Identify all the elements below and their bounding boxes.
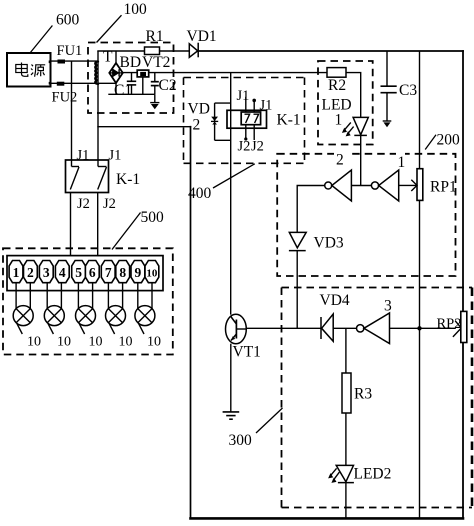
svg-text:2: 2 <box>27 265 34 280</box>
wire: R3 to LED2 <box>345 413 347 465</box>
resistor R3 <box>342 373 351 413</box>
LED LED2 <box>336 465 354 482</box>
label 400 leader line <box>213 164 255 188</box>
wire: right edge of main loop <box>462 51 464 518</box>
capacitor C3 <box>381 51 397 121</box>
wire: VT1 emitter down <box>230 344 232 412</box>
svg-text:10: 10 <box>57 335 71 350</box>
svg-text:500: 500 <box>141 209 165 226</box>
svg-text:200: 200 <box>437 132 461 149</box>
svg-text:10: 10 <box>27 335 41 350</box>
label 600 leader line <box>30 26 52 53</box>
regulator VT2 <box>137 70 149 94</box>
potentiometer RP2 <box>461 311 467 342</box>
wire: R3 branch down <box>345 328 347 373</box>
terminal 5 <box>72 261 86 283</box>
resistor R1 <box>145 47 160 55</box>
svg-text:FU2: FU2 <box>52 90 78 106</box>
wire: RP1 feed from top rail <box>419 51 421 169</box>
terminal 3 <box>39 261 53 283</box>
svg-text:K-1: K-1 <box>116 171 140 188</box>
svg-text:5: 5 <box>75 265 82 280</box>
svg-text:T: T <box>103 49 113 66</box>
bridge rectifier BD <box>109 63 123 83</box>
svg-text:VT2: VT2 <box>142 54 170 71</box>
relay coil K-1 <box>227 110 267 128</box>
svg-text:J1: J1 <box>77 148 90 164</box>
svg-text:J2: J2 <box>103 196 116 212</box>
svg-text:7: 7 <box>105 265 112 280</box>
terminal 4 <box>55 261 69 283</box>
svg-text:1: 1 <box>398 154 406 171</box>
label 电源 (drawn glyphs) <box>16 63 45 77</box>
svg-text:RP1: RP1 <box>430 179 457 196</box>
svg-text:VD: VD <box>188 101 210 118</box>
svg-text:R1: R1 <box>146 28 164 45</box>
diode VD3 <box>289 232 306 250</box>
svg-text:3: 3 <box>43 265 50 280</box>
svg-text:9: 9 <box>135 265 142 280</box>
diode VD1 <box>189 43 198 58</box>
lamp 3 with leads <box>76 283 96 335</box>
capacitor C2 <box>151 73 159 95</box>
wire: FU1 line <box>51 60 99 62</box>
svg-text:R2: R2 <box>328 77 346 94</box>
wire: LED2 to bottom rail <box>345 483 347 519</box>
transistor VT1 <box>226 314 247 344</box>
wire: bridge - output down to negative rail <box>115 83 117 94</box>
wire: left edge of main loop <box>190 127 192 519</box>
svg-text:6: 6 <box>89 265 96 280</box>
svg-text:J1: J1 <box>260 98 273 114</box>
wire: contact left output to terminal strip <box>70 193 72 256</box>
contact block K-1 <box>66 160 109 193</box>
svg-text:10: 10 <box>89 335 103 350</box>
wire: FU2 line to bridge <box>51 82 117 84</box>
svg-text:J1: J1 <box>237 88 250 104</box>
svg-text:K-1: K-1 <box>277 112 301 129</box>
svg-text:VT1: VT1 <box>233 344 261 361</box>
lamp 4 with leads <box>106 283 126 335</box>
LED2 emission arrows <box>328 468 339 483</box>
pin J1 left of relay <box>245 97 247 112</box>
terminal 2 <box>24 261 38 283</box>
RP1 wiper arrow <box>399 180 417 191</box>
label 2 (inverter) <box>334 152 348 169</box>
lamp 2 with leads <box>44 283 64 335</box>
svg-text:RP2: RP2 <box>437 316 462 332</box>
dashed box 400 <box>184 78 305 164</box>
LED LED1 <box>353 117 368 186</box>
wire: bridge + output up to top rail <box>115 51 117 63</box>
svg-text:J2: J2 <box>77 196 90 212</box>
svg-text:J1: J1 <box>109 148 122 164</box>
wire: inverter1 out to inverter2 in <box>351 185 371 187</box>
potentiometer RP1 <box>417 169 423 201</box>
svg-text:10: 10 <box>119 335 133 350</box>
svg-text:10: 10 <box>147 335 161 350</box>
wire: left lamp feed from FU1 line <box>71 61 73 160</box>
pin J2 left of relay <box>244 125 247 141</box>
svg-text:J2: J2 <box>238 139 251 155</box>
inverter 2 <box>325 170 352 201</box>
svg-text:10: 10 <box>146 267 158 279</box>
ground below C3 <box>383 121 392 127</box>
inverter 1 <box>371 170 398 201</box>
svg-text:2: 2 <box>336 152 344 169</box>
svg-text:VD1: VD1 <box>187 28 217 45</box>
dashed box 200 <box>277 154 455 276</box>
svg-text:VD4: VD4 <box>320 292 350 309</box>
label 500 leader line <box>112 213 141 250</box>
fuse FU1 <box>49 60 65 64</box>
transformer T vertical wire with winding <box>97 52 99 160</box>
svg-text:100: 100 <box>124 1 148 18</box>
svg-text:FU1: FU1 <box>57 43 83 59</box>
wire: PSU negative rail <box>108 93 155 95</box>
pin J2 right of relay <box>253 125 255 140</box>
label 200 leader line <box>425 135 436 150</box>
diode VD4 <box>321 314 333 341</box>
junction at RP1 line and base wire <box>417 326 421 330</box>
wire: R2 to LED1 <box>346 73 361 118</box>
svg-text:J2: J2 <box>251 139 264 155</box>
lamp 5 with leads <box>135 283 155 335</box>
wire: DC rail from bridge to R2 <box>123 72 327 74</box>
wire: relay feed drop from DC rail <box>230 73 232 315</box>
dashed box 500 <box>3 248 173 354</box>
fuse FU2 <box>49 82 65 86</box>
lamp 1 with leads <box>13 283 33 335</box>
terminal 10 <box>145 261 159 283</box>
dashed box around R2/LED1 <box>318 61 373 145</box>
contact J1-J2 left <box>70 160 79 190</box>
wire: VD3 to base line <box>296 251 298 329</box>
RP2 wiper arrow <box>453 321 461 337</box>
svg-text:C1: C1 <box>114 82 132 99</box>
svg-text:2: 2 <box>193 117 201 134</box>
dashed box 100 <box>88 43 174 114</box>
dashed box 300 <box>282 288 473 508</box>
svg-text:3: 3 <box>384 298 392 315</box>
label 100 leader line <box>97 15 122 42</box>
ground below C2 <box>150 94 159 109</box>
wire: RP1 bottom to bottom rail <box>419 200 421 518</box>
label 1 (inverter) <box>396 153 405 172</box>
svg-text:C2: C2 <box>159 77 177 94</box>
wire: base line VT1 to VD4 <box>246 327 321 329</box>
svg-text:BD: BD <box>120 54 142 71</box>
svg-text:LED2: LED2 <box>354 466 392 483</box>
resistor R2 <box>327 68 346 78</box>
svg-text:R3: R3 <box>354 386 372 403</box>
wire: PSU negative exit to left edge <box>98 126 191 128</box>
wire: contact right output to terminal strip <box>97 193 99 256</box>
svg-text:8: 8 <box>119 265 126 280</box>
svg-text:300: 300 <box>229 432 253 449</box>
terminal 8 <box>116 261 130 283</box>
capacitor C1 <box>127 73 136 95</box>
svg-text:1: 1 <box>335 112 343 129</box>
label 300 leader line <box>256 408 283 433</box>
contact J1-J2 right <box>98 160 107 190</box>
LED1 emission arrows <box>342 123 354 137</box>
svg-text:4: 4 <box>59 265 66 280</box>
svg-text:C3: C3 <box>399 82 417 99</box>
pin J1 right of relay <box>252 99 256 112</box>
power source box 电源 <box>7 53 51 87</box>
wire: inverter2 output to VD3 branch <box>297 186 325 233</box>
svg-text:600: 600 <box>56 12 80 29</box>
ground at VT1 emitter <box>223 412 240 419</box>
svg-text:400: 400 <box>188 185 212 202</box>
terminal strip <box>7 256 163 291</box>
wire: bottom edge of main loop <box>191 517 464 520</box>
terminal 9 <box>131 261 145 283</box>
svg-text:1: 1 <box>13 265 20 280</box>
inverter 3 <box>357 313 390 344</box>
diode VD2 parallel branch <box>211 103 231 140</box>
wire: VD4 to inverter3 <box>333 327 356 329</box>
wire: inverter3 input from RP2 <box>390 327 456 329</box>
outer main loop: top rail wire <box>98 50 463 52</box>
terminal 7 <box>101 261 115 283</box>
terminal 6 <box>85 261 99 283</box>
terminal 1 <box>9 261 23 283</box>
svg-text:VD3: VD3 <box>314 235 344 252</box>
